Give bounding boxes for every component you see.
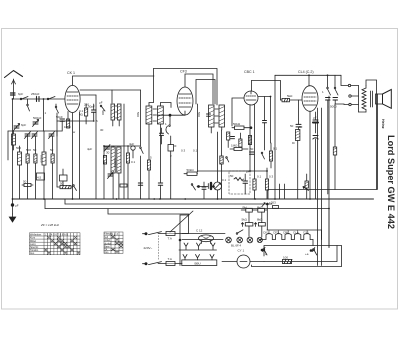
wire screen drop (197, 104, 199, 172)
wire top rail of tuning block (8, 130, 57, 132)
capacitor C16 (313, 136, 318, 200)
svg-text:50: 50 (250, 147, 254, 151)
wire T2 secondary to CF3 grid (161, 103, 172, 108)
svg-text:6pF: 6pF (18, 92, 23, 96)
svg-text:50: 50 (50, 148, 54, 152)
dial lamps (226, 237, 263, 243)
svg-text:0.3: 0.3 (181, 149, 186, 153)
oscillator coil L4 (tall pair) (111, 146, 121, 199)
wire CBC1 plate coupling (251, 81, 280, 101)
switch S5 (140, 147, 144, 199)
wire CL4 cathode (309, 111, 311, 199)
heater chain (262, 231, 313, 240)
wire CK1 second lead (79, 112, 81, 199)
svg-text:50: 50 (230, 174, 234, 178)
capacitor C13 (250, 152, 255, 154)
svg-text:T.A: T.A (168, 257, 172, 261)
svg-text:50pF: 50pF (88, 105, 95, 109)
wire band drop (43, 99, 45, 131)
capacitor C4 (92, 104, 97, 121)
resistor R12 vertical (220, 130, 223, 199)
tube CK1 (65, 85, 80, 112)
svg-text:5kΩ: 5kΩ (242, 218, 248, 222)
wire screen feeds (317, 108, 319, 266)
wire lower row (57, 120, 94, 122)
tube CF3 (177, 87, 193, 115)
wire verticals power (248, 212, 250, 223)
wire CBC1 cathode down (249, 105, 251, 172)
resistor R21 (305, 174, 308, 199)
resistor R11 50k box (184, 172, 197, 175)
capacitor C12 electrolytic can (199, 235, 214, 244)
switch S3 drop (55, 104, 58, 121)
svg-text:4,5: 4,5 (37, 176, 42, 180)
wire T3 top bracket (196, 80, 215, 105)
wire B+ rail top (275, 74, 341, 76)
svg-text:µF: µF (15, 204, 19, 208)
wire right-edge return (366, 80, 377, 190)
wire osc top rail (104, 145, 140, 147)
wire T2 bottom leads (148, 124, 150, 160)
wire T1 secondary down (123, 104, 125, 199)
svg-text:30: 30 (106, 151, 110, 155)
trimmer cap TC2 (33, 120, 39, 127)
svg-text:50: 50 (290, 124, 294, 128)
wire switch row to contacts (335, 103, 349, 106)
capacitor C ant (series in down-lead) (11, 93, 16, 95)
svg-text:50pF: 50pF (56, 115, 63, 119)
battery box 4.5V (37, 173, 45, 180)
volume pot P1 (214, 132, 222, 199)
svg-text:CBC 1: CBC 1 (244, 70, 255, 74)
dashed screen box (229, 171, 250, 194)
resistor R14 zigzag (234, 178, 244, 181)
capacitor C13b (231, 137, 235, 139)
vertical text nameplate (381, 119, 396, 229)
capacitor on down-lead at bus (11, 204, 14, 207)
trimmer TC8 mid (104, 145, 110, 152)
svg-text:500pF: 500pF (33, 116, 42, 120)
switch S6b (226, 157, 229, 162)
resistor R6 (67, 119, 70, 128)
svg-text:+263: +263 (269, 201, 276, 205)
antenna (5, 71, 23, 100)
rectifier CY1 (222, 255, 264, 268)
svg-text:µF: µF (99, 101, 103, 105)
svg-text:50: 50 (299, 125, 303, 129)
battery box B2 (60, 169, 68, 181)
svg-text:µF: µF (313, 116, 317, 120)
svg-text:0.1: 0.1 (257, 175, 262, 179)
capacitor C17 (326, 98, 331, 108)
switch S7 (261, 152, 264, 159)
resistor R13c vertical (239, 133, 242, 147)
svg-text:50kΩ: 50kΩ (233, 122, 241, 126)
ground (9, 217, 15, 222)
resistor R13b vertical (227, 132, 230, 148)
mains terminal upper (143, 232, 167, 235)
svg-text:5000: 5000 (330, 105, 337, 109)
svg-text:µF: µF (246, 170, 250, 174)
electrolytic C8 box (168, 136, 176, 199)
switch S6 arc (166, 115, 170, 134)
resistor R15 (253, 179, 256, 199)
switch S4 (100, 105, 105, 111)
svg-text:8kΩ: 8kΩ (257, 218, 263, 222)
resistor R5 (85, 104, 88, 124)
resistor R4b horizontal (57, 186, 71, 189)
capacitor C14 (296, 100, 301, 130)
switch S2b drop (27, 99, 30, 111)
svg-text:Heinz: Heinz (381, 119, 385, 129)
switch S8 (191, 184, 195, 190)
resistor R3 (51, 136, 54, 199)
resistor R4 horizontal (22, 184, 33, 187)
svg-text:123: 123 (112, 234, 119, 236)
svg-text:BL 6F.4: BL 6F.4 (231, 244, 241, 248)
resistor R8b (147, 160, 150, 199)
svg-text:50kΩ: 50kΩ (187, 168, 195, 172)
upper AF row: resistor R17 (230, 148, 248, 151)
svg-text:CK 1: CK 1 (67, 71, 75, 75)
trimmer TC5 (49, 132, 55, 139)
resistor R9 horizontal (120, 184, 127, 187)
wire screen rail (154, 69, 218, 106)
resistor R19 horizontal (281, 98, 303, 101)
capacitor C9c (202, 182, 206, 199)
coil L1 (12, 131, 16, 150)
svg-text:123456789AB: 123456789AB (45, 234, 69, 237)
mains terminal lower (143, 236, 167, 265)
output transformer (359, 86, 373, 113)
svg-text:220V~: 220V~ (144, 246, 153, 250)
resistor R20 hatched (283, 259, 293, 263)
switch S10 (71, 185, 77, 191)
svg-text:0.1: 0.1 (222, 178, 227, 182)
trimmer cap TC1 (14, 124, 20, 131)
svg-text:ZF = 128 kHz: ZF = 128 kHz (40, 223, 60, 227)
wire CL4 plate to rail (308, 75, 310, 86)
resistor box row2 a (241, 223, 253, 227)
bus 3 (65, 203, 272, 205)
svg-text:30: 30 (100, 128, 104, 132)
resistor R7 (126, 146, 129, 199)
capacitor C9b small (207, 114, 211, 116)
wire CK1 plate to IF transformer (73, 76, 155, 85)
svg-text:Dr: Dr (292, 141, 295, 145)
wire T2 primary feed (149, 69, 154, 107)
capacitor C20 (263, 97, 267, 151)
wire CK1 side to coil T1 (80, 89, 141, 91)
electrolytic C15 (313, 112, 318, 133)
svg-text:500: 500 (16, 146, 21, 150)
resistor R2 (34, 136, 37, 199)
wire left edge of tuning block (7, 131, 9, 160)
svg-text:0.0004: 0.0004 (113, 158, 117, 168)
svg-text:6pF: 6pF (21, 123, 26, 127)
capacitor C19 (138, 183, 142, 185)
junction dots (198, 186, 200, 188)
speaker (376, 90, 392, 109)
svg-text:CF3: CF3 (180, 70, 187, 74)
bus 2 (44, 199, 46, 209)
junction +263 (266, 203, 268, 205)
wire AF feed (250, 170, 267, 172)
switch S9 bus (262, 203, 265, 207)
svg-text:500: 500 (197, 112, 201, 117)
svg-text:+a: +a (305, 252, 309, 256)
svg-text:C 12: C 12 (196, 229, 203, 233)
resistor R22 (248, 136, 251, 145)
svg-text:Aus: Aus (30, 252, 35, 255)
chassis box corner (180, 215, 189, 266)
resistor R18 (269, 143, 272, 168)
BBU mains transformer (179, 243, 217, 266)
wire main signal line to CK1 grid (13, 98, 66, 100)
junction dots power (261, 249, 263, 251)
svg-text:Bkl.: Bkl. (243, 206, 248, 210)
tone switch blades (327, 75, 338, 95)
tube CL4 (302, 86, 318, 112)
wire diagonal to bus (170, 211, 193, 232)
svg-text:4µF: 4µF (87, 147, 92, 151)
trimmer TC3 (25, 132, 31, 139)
svg-text:0.1: 0.1 (193, 149, 198, 153)
svg-text:500: 500 (26, 148, 31, 152)
switch S2 (47, 97, 55, 100)
wire feeds (56, 121, 58, 187)
resistor R6b (103, 156, 106, 165)
wire heater chain feed (261, 239, 262, 242)
wire CF3 plate rail (185, 74, 213, 104)
rear connector panel (252, 246, 342, 267)
capacitor C7b (158, 183, 162, 199)
capacitor C9 (160, 128, 164, 144)
svg-text:50: 50 (33, 148, 37, 152)
coil L2 (18, 146, 22, 199)
wire CK1 cathode down (67, 112, 69, 122)
svg-text:0.1: 0.1 (131, 160, 136, 164)
svg-text:4µF: 4µF (129, 142, 134, 146)
tone switch contacts (348, 84, 358, 105)
capacitor C18 (333, 98, 338, 105)
trimmer TC7 (108, 172, 114, 179)
resistor R16 (265, 168, 268, 199)
resistor box row1 a (241, 208, 258, 212)
wire antenna down-lead to ground (12, 99, 14, 214)
wire right drop (56, 131, 58, 136)
tube CBC1 (244, 91, 258, 105)
svg-text:500: 500 (101, 110, 105, 115)
resistor R13 horizontal 50k (232, 126, 252, 130)
scattered value labels (16, 90, 337, 260)
switch S11 rail (236, 230, 243, 235)
electrolytic C10 (197, 183, 214, 189)
wire CF3 cathode row (184, 111, 186, 115)
switch S1 (20, 97, 28, 100)
svg-text:BBU: BBU (195, 261, 201, 265)
resistor R23 (333, 104, 336, 190)
svg-text:T.A: T.A (168, 236, 172, 240)
coil L3 (42, 131, 46, 199)
electrolytic C6 (131, 146, 135, 158)
main ground bus (13, 198, 374, 200)
svg-text:5kΩ: 5kΩ (287, 94, 293, 98)
wire AVC line (197, 171, 251, 174)
wire power rail upper (182, 233, 225, 235)
fuse Tr upper (166, 232, 189, 236)
coil choke L5 (296, 130, 300, 200)
resistor box row2 b (254, 223, 265, 227)
svg-text:250pF: 250pF (31, 92, 40, 96)
capacitor C11 (243, 174, 248, 194)
svg-text:CY 1: CY 1 (238, 249, 245, 253)
capacitor 250pF series (37, 97, 40, 102)
table klang chart (104, 232, 123, 253)
svg-text:1000: 1000 (64, 125, 71, 129)
svg-text:50: 50 (23, 180, 27, 184)
svg-text:0.3: 0.3 (269, 175, 274, 179)
svg-text:Lord Super GW E 442: Lord Super GW E 442 (386, 135, 396, 229)
capacitor C5 (60, 119, 65, 131)
table wave-band chart (30, 233, 81, 255)
resistor R1 (26, 136, 29, 199)
svg-text:0.1: 0.1 (273, 147, 278, 151)
trimmer TC4 (32, 132, 38, 139)
svg-text:500: 500 (136, 112, 140, 117)
resistor box row1 b (258, 208, 268, 212)
svg-text:CL4 (C.2): CL4 (C.2) (298, 70, 314, 74)
fuse Tr lower (166, 262, 182, 266)
svg-text:100: 100 (283, 256, 288, 260)
svg-text:0.020: 0.020 (40, 155, 44, 163)
svg-text:1MΩ: 1MΩ (231, 144, 238, 148)
wire grid left (232, 98, 244, 126)
